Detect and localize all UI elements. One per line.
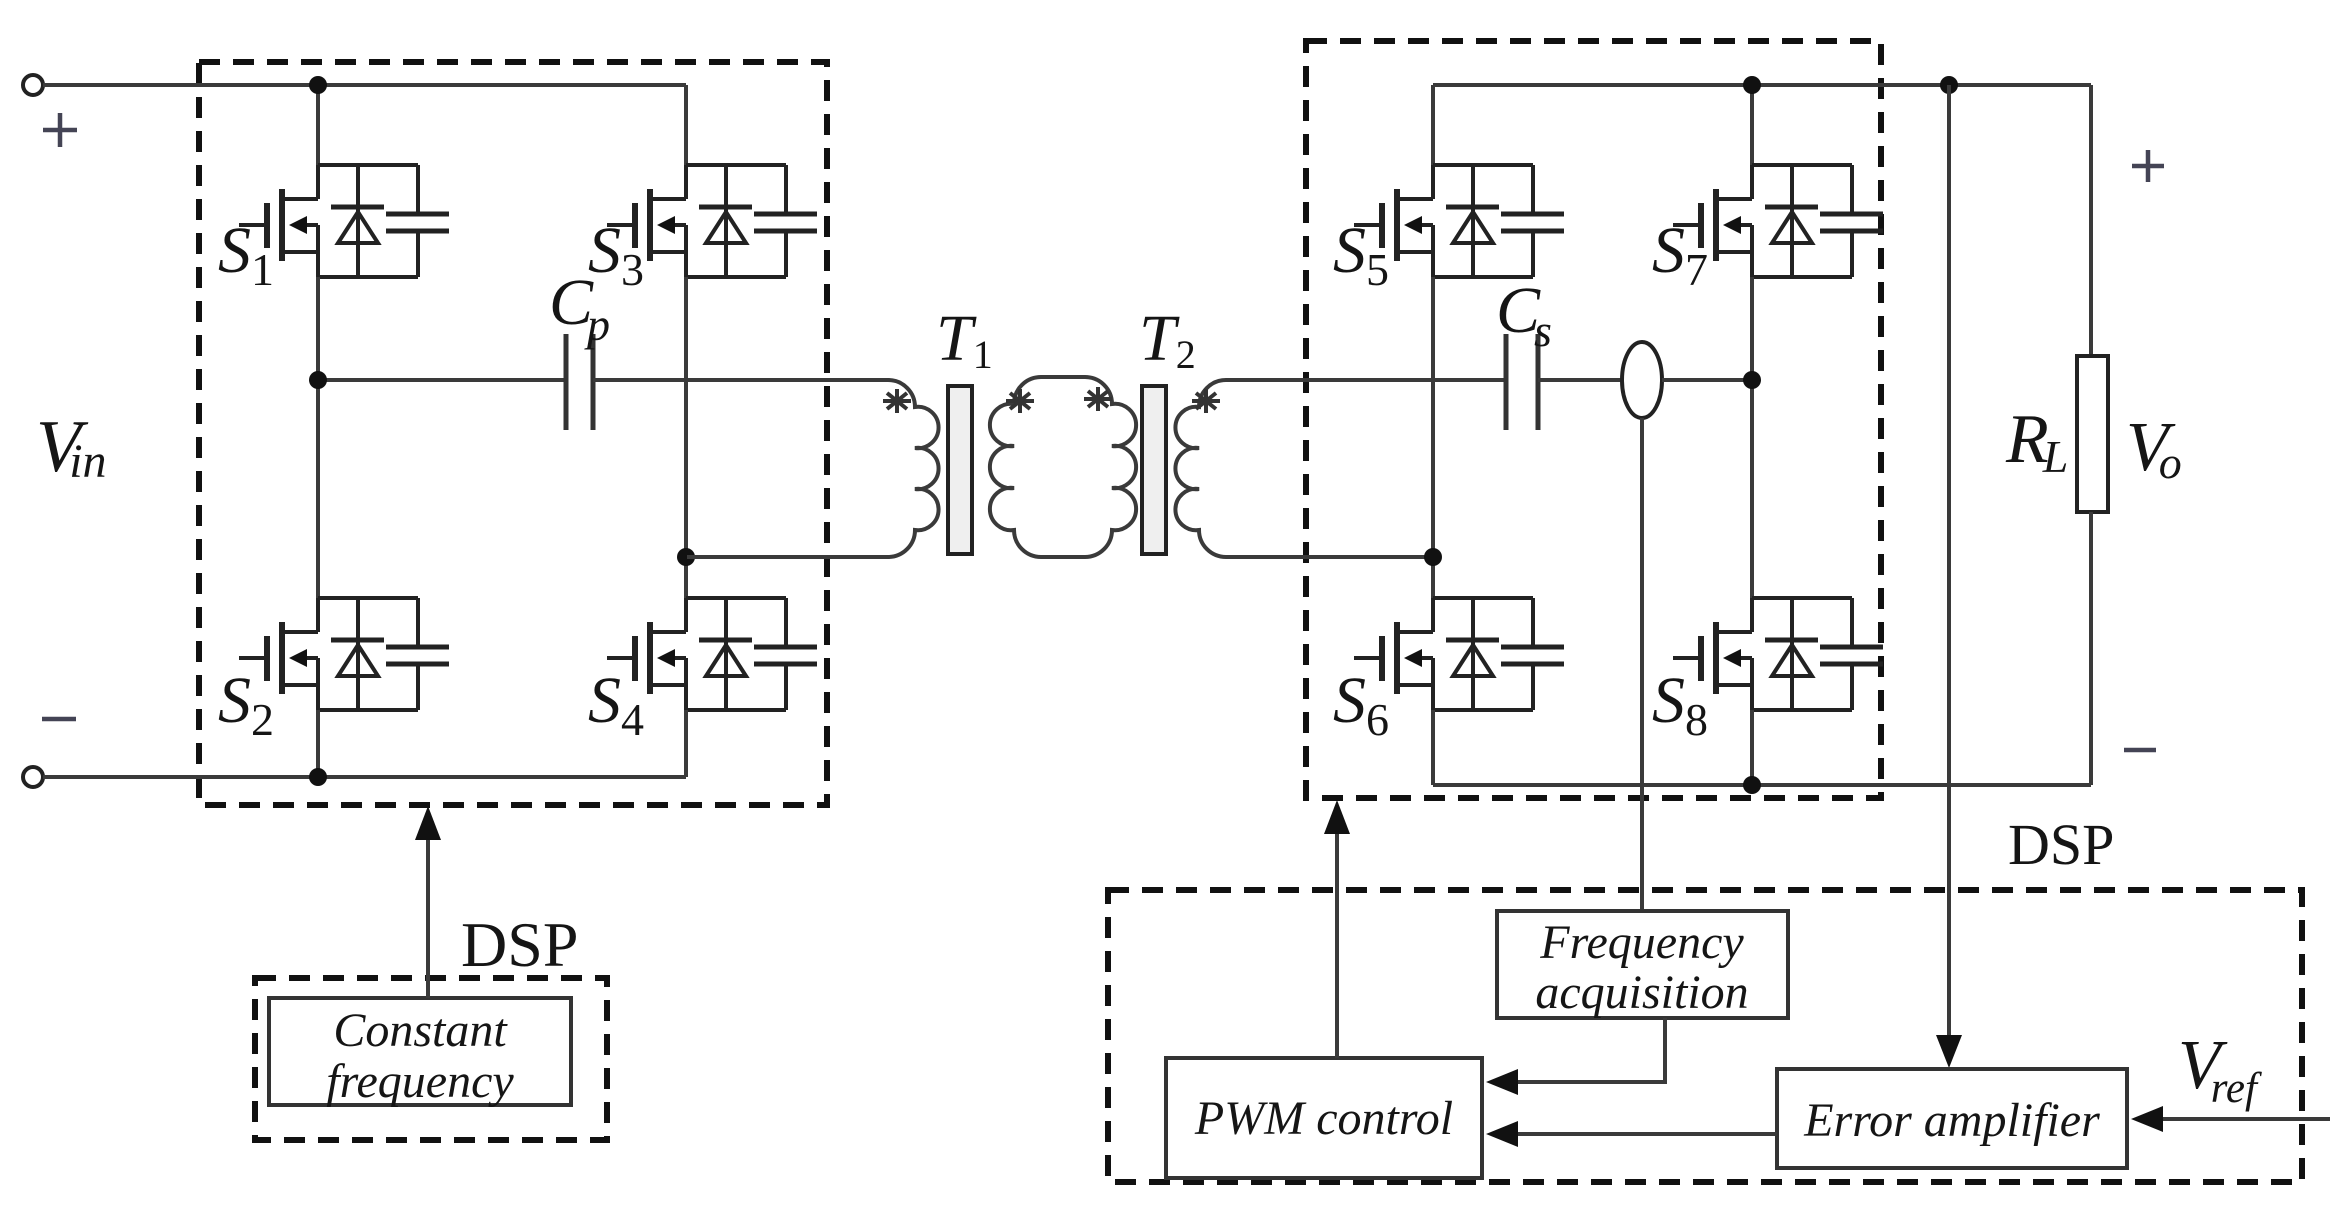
transistor S3 (MOSFET with body diode and capacitor): [607, 165, 817, 277]
svg-text:acquisition: acquisition: [1535, 966, 1748, 1019]
wire: right primary leg S3 drain: [684, 85, 688, 165]
DSP dashed box (right, control): [1108, 890, 2302, 1182]
node dot: S5/S6 midpoint: [1424, 548, 1442, 566]
transistor S7 (MOSFET with body diode and capacitor): [1673, 165, 1883, 277]
wire: left primary leg S2 source to bottom rail: [316, 710, 320, 777]
wire: left secondary leg S6 source to bottom rail: [1431, 710, 1435, 785]
wire: secondary top rail: [1433, 83, 2091, 87]
input terminal - (circle): [23, 767, 43, 787]
transistor S2 (MOSFET with body diode and capacitor): [239, 598, 449, 710]
wire: frequency acquisition to PWM control: [1516, 1018, 1665, 1082]
arrowhead: gate drive into primary bridge: [415, 806, 441, 840]
node dot: bottom rail / S2 source: [309, 768, 327, 786]
wire: current sensor output down to frequency acquisition: [1640, 418, 1644, 911]
polarity dot (asterisk) T1 primary: [883, 389, 911, 413]
wire: current sensor to S7/S8 midpoint: [1662, 378, 1752, 382]
transistor S6 (MOSFET with body diode and capacitor): [1354, 598, 1564, 710]
wire: right secondary leg between S7 and S8: [1750, 277, 1754, 598]
wire: right primary leg between S3 and S4: [684, 277, 688, 598]
wire: constant frequency to primary bridge: [426, 840, 430, 998]
transformer T2 secondary winding: [1175, 380, 1505, 557]
input terminal + (circle): [23, 75, 43, 95]
secondary bridge dashed box: [1306, 41, 1881, 798]
resistor RL (load): [2077, 356, 2108, 512]
svg-text:Constant: Constant: [333, 1004, 508, 1057]
wire: node A to Cp: [318, 378, 566, 382]
node dot: right leg midpoint node B: [677, 548, 695, 566]
svg-text:Error amplifier: Error amplifier: [1803, 1094, 2100, 1147]
wire: top input rail from terminal to S3 leg: [43, 83, 686, 87]
wire: left secondary leg S5 drain: [1431, 85, 1435, 165]
DSP dashed box (left, constant frequency): [255, 978, 607, 1140]
transformer T1 core: [948, 386, 972, 554]
relay resonant loop (T1 secondary + T2 primary windings): [990, 377, 1136, 557]
arrowhead: gate drive into secondary bridge: [1324, 800, 1350, 834]
label - (output polarity): [2124, 748, 2156, 753]
PWM control block: [1166, 1058, 1482, 1178]
wire: right primary leg S4 source to bottom rail: [684, 710, 688, 777]
wire: output voltage feedback line down to error amplifier: [1947, 85, 1951, 1036]
label - (input polarity): [42, 717, 76, 722]
frequency acquisition block: [1497, 911, 1788, 1018]
svg-text:Vref: Vref: [2178, 1027, 2262, 1112]
svg-text:frequency: frequency: [326, 1055, 514, 1108]
node dot: left leg midpoint node A: [309, 371, 327, 389]
wire: bottom input rail from terminal to S4 leg: [43, 775, 686, 779]
wire: top rail corner down to RL: [2089, 85, 2093, 356]
constant frequency block: [269, 998, 571, 1105]
arrowhead: feedback into error amplifier: [1936, 1035, 1962, 1068]
polarity dot (asterisk) relay left: [1006, 389, 1034, 413]
wire: Vref input: [2161, 1117, 2330, 1121]
arrowhead: frequency signal into PWM control: [1486, 1069, 1518, 1095]
arrowhead: Vref into error amplifier: [2131, 1106, 2163, 1132]
svg-text:DSP: DSP: [461, 909, 578, 980]
wire: right secondary leg S7 drain: [1750, 85, 1754, 165]
svg-text:T1: T1: [936, 302, 993, 377]
node dot: secondary top rail feedback tap: [1940, 76, 1958, 94]
polarity dot (asterisk) T2 secondary: [1192, 389, 1220, 413]
capacitor Cs (series resonant, secondary): [1506, 334, 1538, 430]
label + (input polarity): [43, 113, 77, 147]
node dot: secondary bottom rail / S8 source: [1743, 776, 1761, 794]
svg-text:Vin: Vin: [36, 406, 107, 488]
svg-text:PWM control: PWM control: [1194, 1092, 1453, 1145]
wire: PWM control to secondary bridge: [1335, 834, 1339, 1058]
transformer T1 primary winding: [593, 380, 939, 557]
svg-text:T2: T2: [1139, 302, 1196, 377]
transistor S4 (MOSFET with body diode and capacitor): [607, 598, 817, 710]
wire: left primary leg S1 drain: [316, 85, 320, 165]
transistor S8 (MOSFET with body diode and capacitor): [1673, 598, 1883, 710]
transistor S1 (MOSFET with body diode and capacitor): [239, 165, 449, 277]
svg-text:Vo: Vo: [2126, 409, 2182, 488]
label + (output polarity): [2132, 150, 2164, 182]
wire: secondary bottom rail: [1433, 783, 2091, 787]
svg-text:Cs: Cs: [1496, 274, 1552, 356]
wire: left secondary leg between S5 and S6: [1431, 277, 1435, 598]
current sensor (ellipse): [1622, 342, 1662, 418]
wire: error amplifier to PWM control: [1516, 1132, 1777, 1136]
wire: Cs to current sensor: [1538, 378, 1622, 382]
transistor S5 (MOSFET with body diode and capacitor): [1354, 165, 1564, 277]
node dot: secondary top rail / S7 drain: [1743, 76, 1761, 94]
transformer T2 core: [1142, 386, 1166, 554]
svg-text:DSP: DSP: [2008, 812, 2114, 877]
wire: RL bottom to bottom rail: [2089, 512, 2093, 785]
node dot: top rail / S1 drain: [309, 76, 327, 94]
wire: right secondary leg S8 source to bottom rail: [1750, 710, 1754, 785]
polarity dot (asterisk) relay right: [1084, 387, 1112, 411]
node dot: S7/S8 midpoint: [1743, 371, 1761, 389]
wire: left primary leg between S1 and S2: [316, 277, 320, 598]
capacitor Cp (series resonant, primary): [566, 334, 593, 430]
arrowhead: error signal into PWM control: [1486, 1121, 1518, 1147]
primary bridge dashed box: [199, 62, 827, 805]
svg-text:Frequency: Frequency: [1539, 916, 1744, 969]
svg-text:RL: RL: [2005, 401, 2068, 482]
error amplifier block: [1777, 1069, 2127, 1168]
